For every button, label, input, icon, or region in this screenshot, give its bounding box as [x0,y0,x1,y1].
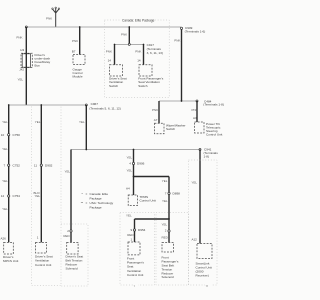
node left end [25,26,27,28]
svg-text:YEL: YEL [162,179,168,183]
svg-text:PNK: PNK [152,108,158,112]
svg-text:10: 10 [1,133,5,137]
svg-text:Canada: Elite Package: Canada: Elite Package [122,18,155,22]
svg-text:C754: C754 [13,194,21,198]
svg-text:YEL: YEL [162,199,168,203]
wire C967 drop [85,105,87,150]
svg-text:PNK: PNK [192,108,198,112]
svg-text:H3: H3 [20,48,24,52]
dashed option box mid [120,213,155,286]
svg-text:PNK: PNK [46,17,52,21]
dashed option box right [189,160,218,285]
fuse element [22,54,30,67]
svg-text:Package: Package [90,197,102,201]
connector C917 [128,43,130,45]
svg-text:YEL: YEL [65,170,71,174]
front passenger's seat belt tension reducer solenoid box [162,243,174,253]
wire C941 drop / smartlink [199,150,201,244]
wire power tilt drop [196,101,198,122]
svg-text:A12: A12 [192,238,198,242]
junction elite [128,26,130,28]
svg-text:D954: D954 [138,228,146,232]
asterisk marker right [205,283,212,289]
power tilt box [195,122,205,133]
bus top horizontal [26,26,181,28]
fuse box dashed [21,53,32,67]
connector D906 [132,162,134,164]
svg-text:3, 6, 11, 13): 3, 6, 11, 13) [147,51,163,55]
svg-text:=: = [86,192,88,196]
svg-text:YEL: YEL [191,181,197,185]
wire elite drop [128,27,130,44]
bus4 [135,218,170,220]
svg-text:(Terminals 5, 6, 11, 12): (Terminals 5, 6, 11, 12) [89,106,120,110]
asterisk marker mid [133,283,138,289]
dashed option box left2 [61,224,88,286]
wire left drop [25,27,27,105]
junction dots [8,104,10,106]
wire wiper drop [158,101,160,123]
T bus [115,43,144,45]
connector C484 [196,100,198,102]
svg-text:Solenoid: Solenoid [162,275,174,279]
junction [181,100,183,102]
TPMS control unit box [128,195,137,206]
svg-text:PNK: PNK [72,39,78,43]
svg-text:1-8): 1-8) [204,155,210,159]
connector C909 [180,27,182,29]
svg-text:Box: Box [35,64,41,68]
svg-text:Package: Package [90,206,102,210]
driver's seat ventilation switch box [110,65,123,76]
connector C941 [199,149,201,151]
svg-text:YEL: YEL [2,120,8,124]
wire passenger vent switch [143,44,145,64]
svg-text:Solenoid: Solenoid [66,267,78,271]
svg-text:YEL: YEL [2,179,8,183]
Canada Elite Package dashed box [105,20,170,98]
svg-text:A7: A7 [154,118,158,122]
svg-text:12: 12 [1,194,5,198]
svg-text:A4: A4 [126,187,130,191]
branch to D898 [134,176,170,178]
connector [70,230,72,232]
svg-text:YEL: YEL [126,214,132,218]
svg-text:Receiver): Receiver) [196,274,209,278]
driver's seat ventilation control unit box [36,242,47,253]
connector [168,230,170,232]
front passenger's seat ventilation control unit box [128,242,140,255]
svg-text:Module: Module [73,75,83,79]
connector C750 [8,134,10,136]
svg-text:D902: D902 [45,163,53,167]
dashed option box left [32,107,62,286]
svg-text:Switch: Switch [166,127,175,131]
svg-text:A26: A26 [1,237,7,241]
svg-text:(Terminals 1-8): (Terminals 1-8) [203,102,224,106]
svg-text:Control Unit: Control Unit [35,263,51,267]
wire right main drop [181,27,183,101]
svg-text:YEL: YEL [2,207,8,211]
svg-text:YEL: YEL [127,156,133,160]
svg-text:YEL: YEL [18,78,24,82]
wire D954 column [134,219,136,242]
wire driver solenoid column [70,150,72,243]
svg-text:PNK: PNK [121,33,127,37]
svg-text:14: 14 [137,59,141,63]
bus2 middle horizontal [9,104,87,106]
junction gauge [79,26,81,28]
bus3 [71,149,200,151]
svg-text:YEL: YEL [35,120,41,124]
wire passenger solenoid [168,219,170,243]
wire D898 drop [168,177,170,220]
svg-text:YEL: YEL [127,169,133,173]
svg-text:USA: Technology: USA: Technology [90,201,114,205]
wire vent control column [40,105,42,242]
svg-text:PNK: PNK [106,50,112,54]
svg-text:RED: RED [63,234,70,238]
svg-text:Control Unit: Control Unit [140,199,156,203]
wiper/washer switch box [155,123,165,134]
connector C967 [85,104,87,106]
svg-text:11: 11 [34,163,37,167]
svg-text:D898: D898 [173,192,181,196]
svg-text:RED: RED [127,233,134,237]
svg-text:B7: B7 [72,50,76,54]
svg-text:YEL: YEL [35,194,41,198]
power feed symbol [52,7,60,27]
svg-text:YEL: YEL [2,147,8,151]
svg-text:YEL: YEL [162,223,168,227]
svg-text:14: 14 [108,59,112,63]
svg-text:C750: C750 [13,133,21,137]
svg-text:J42: J42 [19,67,24,71]
gauge control module box [73,55,85,65]
svg-text:C752: C752 [13,163,21,167]
svg-text:YEL: YEL [79,120,85,124]
svg-text:PNK: PNK [135,50,141,54]
svg-text:PNK: PNK [174,38,180,42]
wiper branch bus [159,100,197,102]
svg-text:MPCS Unit: MPCS Unit [3,259,18,263]
svg-text:Canada: Elite: Canada: Elite [90,192,109,196]
driver's seat belt tension reducer solenoid box [67,242,78,254]
svg-text:Switch: Switch [138,84,147,88]
svg-text:RED: RED [162,236,169,240]
front passenger's seat ventilation switch box [139,65,152,76]
svg-text:Switch: Switch [109,84,118,88]
wire driver vent switch [114,44,116,64]
dashed option box mid2 [156,213,189,286]
junction [133,176,135,178]
svg-text:Control Unit: Control Unit [206,132,222,136]
connector D954 [133,229,135,231]
connector C752 [8,164,10,166]
svg-text:PNK: PNK [16,36,22,40]
wire gauge drop [79,27,81,55]
connector D898 [168,192,170,194]
svg-text:D906: D906 [137,162,145,166]
svg-text:(Terminals 1-6): (Terminals 1-6) [185,30,206,34]
svg-text:A3: A3 [193,116,197,120]
connector D902 [40,164,42,166]
connector C754 [8,195,10,197]
wire D906 column [133,150,135,196]
svg-text:Control Unit: Control Unit [127,273,143,277]
wire MPCS column [8,105,10,242]
smartlink control unit box [197,244,212,259]
driver's MPCS unit box [4,242,14,254]
svg-text:=: = [86,201,88,205]
